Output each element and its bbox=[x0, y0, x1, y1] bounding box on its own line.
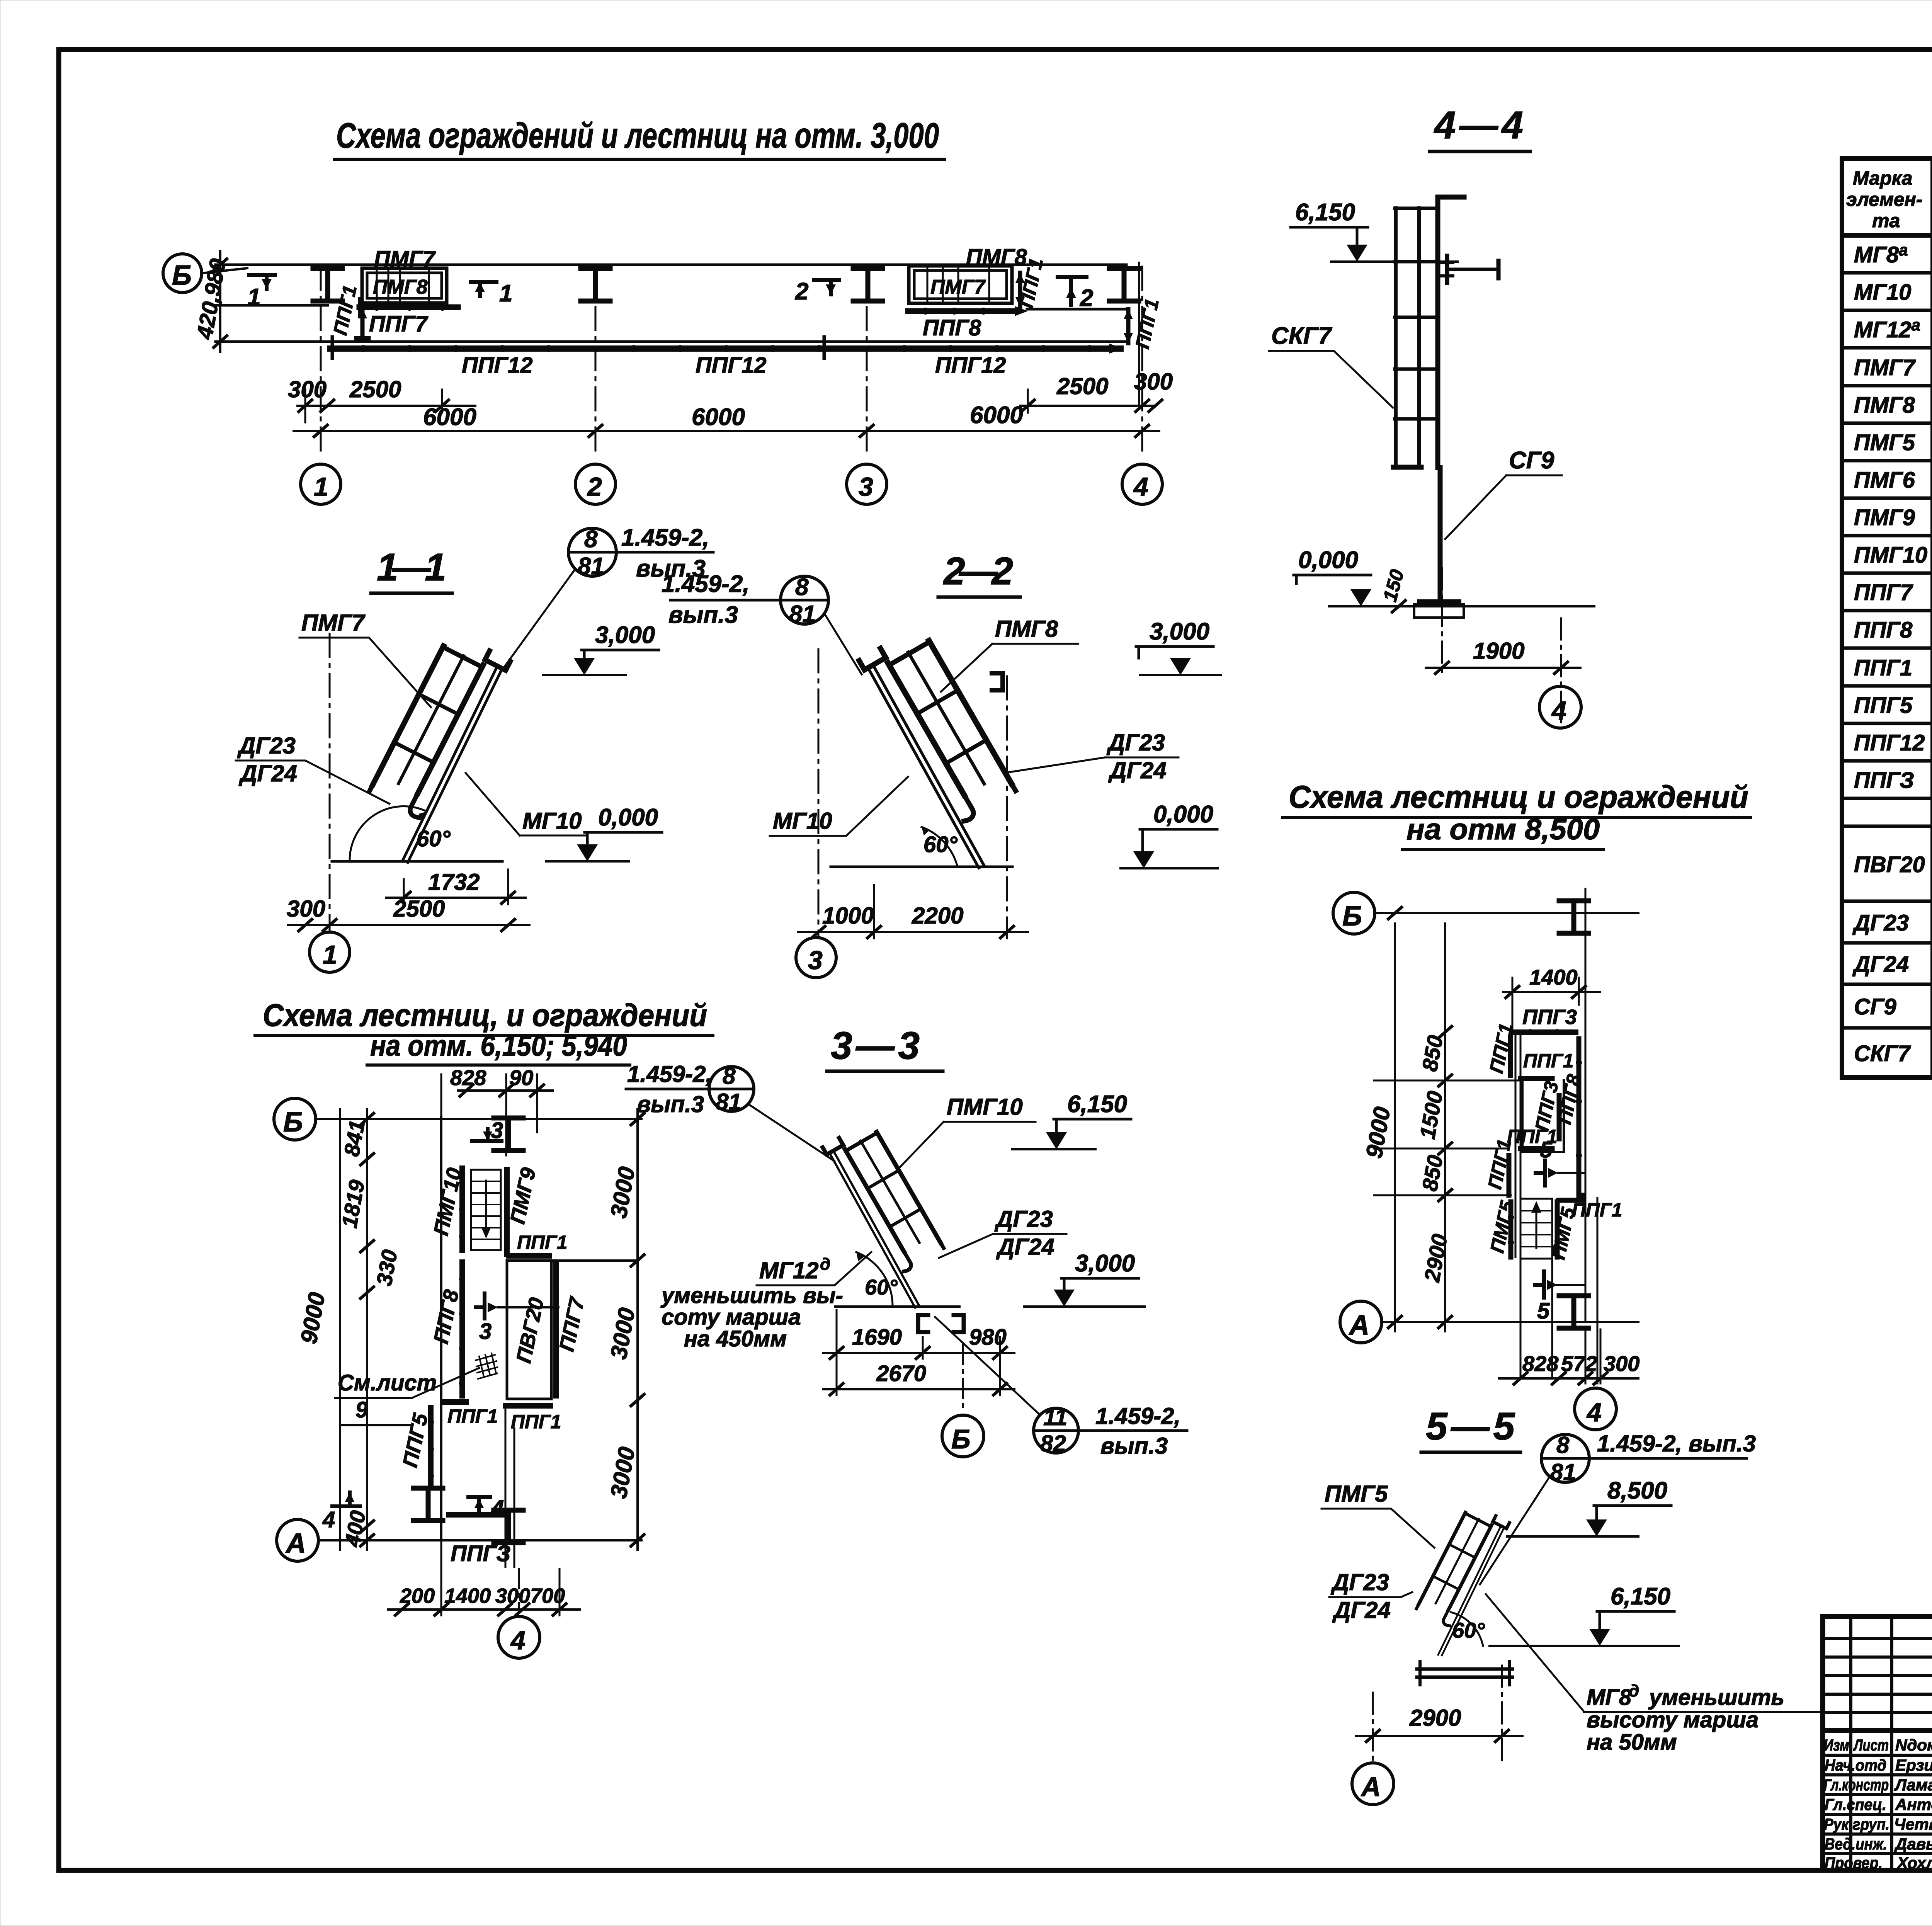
dim 300/2500 bbox=[288, 924, 529, 926]
axis circle 3 bbox=[818, 649, 820, 937]
svg-text:1400: 1400 bbox=[444, 1584, 491, 1608]
svg-text:Схема лестниц и ограждений: Схема лестниц и ограждений bbox=[1289, 779, 1748, 815]
svg-text:ДГ23: ДГ23 bbox=[1852, 910, 1909, 936]
svg-text:Nдокум.: Nдокум. bbox=[1895, 1736, 1932, 1754]
svg-text:та: та bbox=[1872, 210, 1900, 231]
svg-text:9000: 9000 bbox=[296, 1290, 330, 1346]
right dim chain 3000x3 bbox=[636, 1109, 639, 1550]
svg-text:60°: 60° bbox=[923, 832, 958, 857]
svg-text:МГ10: МГ10 bbox=[773, 808, 832, 834]
svg-text:5—5: 5—5 bbox=[1426, 1405, 1515, 1448]
svg-text:Хохлова: Хохлова bbox=[1896, 1854, 1932, 1872]
landing ПВГ20 bbox=[507, 1261, 551, 1399]
svg-text:на отм 8,500: на отм 8,500 bbox=[1406, 813, 1600, 846]
column I-beam top bbox=[494, 1118, 523, 1150]
svg-text:ППГ12: ППГ12 bbox=[1854, 730, 1925, 755]
svg-text:8: 8 bbox=[723, 1063, 736, 1089]
svg-text:4: 4 bbox=[1586, 1398, 1602, 1427]
svg-text:Б: Б bbox=[283, 1107, 303, 1138]
axis circle А bbox=[277, 1519, 318, 1561]
svg-text:200: 200 bbox=[400, 1584, 435, 1608]
dim chain 300/2500 left bbox=[298, 405, 475, 407]
svg-text:ПМГ10: ПМГ10 bbox=[1854, 543, 1927, 568]
column I-beam top bbox=[1559, 901, 1588, 933]
svg-text:3: 3 bbox=[808, 946, 823, 975]
railing ППГ1 lower-left bbox=[444, 1399, 466, 1405]
axis circle 1 bbox=[329, 634, 331, 931]
callout 8/81 bbox=[568, 528, 616, 576]
svg-text:ППГ5: ППГ5 bbox=[398, 1411, 432, 1469]
svg-text:1: 1 bbox=[499, 280, 512, 307]
svg-text:ПВГ20: ПВГ20 bbox=[512, 1296, 548, 1365]
railing ПМГ10 heavy bbox=[459, 1168, 465, 1250]
railing ППГ7 heavy bbox=[553, 1264, 559, 1396]
svg-text:81: 81 bbox=[789, 601, 816, 628]
svg-text:1500: 1500 bbox=[1415, 1089, 1447, 1141]
svg-text:1.459-2,: 1.459-2, bbox=[1095, 1403, 1180, 1429]
svg-text:Провер.: Провер. bbox=[1825, 1854, 1883, 1872]
railing ППГ5 heavy bbox=[428, 1408, 434, 1485]
svg-text:ПМГ8: ПМГ8 bbox=[995, 616, 1058, 642]
svg-text:ППГ1: ППГ1 bbox=[511, 1411, 561, 1433]
svg-text:ПВГ20: ПВГ20 bbox=[1854, 852, 1925, 877]
section mark 3 mid bbox=[476, 1293, 485, 1319]
svg-text:0,000: 0,000 bbox=[598, 804, 658, 831]
pole СГ9 bbox=[1438, 468, 1443, 601]
svg-text:1: 1 bbox=[323, 940, 337, 970]
railing ППГ7 heavy bbox=[359, 305, 458, 310]
axis circle А bbox=[1352, 1763, 1394, 1805]
svg-text:ПМГ9: ПМГ9 bbox=[1854, 505, 1915, 530]
svg-text:Вед.инж.: Вед.инж. bbox=[1825, 1835, 1887, 1853]
svg-text:ППГ7: ППГ7 bbox=[1854, 580, 1913, 605]
svg-text:1—1: 1—1 bbox=[377, 546, 446, 589]
svg-text:81: 81 bbox=[716, 1089, 742, 1115]
ППГ1 post left bbox=[356, 308, 369, 338]
svg-text:ДГ24: ДГ24 bbox=[238, 761, 297, 786]
svg-text:ПМГ6: ПМГ6 bbox=[1854, 468, 1915, 493]
callout 8/81 bbox=[1541, 1434, 1589, 1482]
svg-text:82: 82 bbox=[1040, 1431, 1066, 1456]
angle 60 bbox=[350, 806, 427, 861]
column I-beams bbox=[313, 269, 342, 301]
svg-text:0,000: 0,000 bbox=[1298, 547, 1358, 573]
svg-text:60°: 60° bbox=[865, 1275, 898, 1299]
axis circle Б bbox=[962, 1345, 964, 1412]
section mark 2 right bbox=[1058, 277, 1087, 305]
svg-text:1819: 1819 bbox=[337, 1178, 369, 1230]
svg-text:уменьшить: уменьшить bbox=[1648, 1685, 1784, 1710]
svg-text:ДГ23: ДГ23 bbox=[1330, 1569, 1389, 1595]
dim 1900 bbox=[1442, 568, 1561, 727]
table grid bbox=[1842, 158, 1932, 1077]
svg-text:ПМГ5: ПМГ5 bbox=[1325, 1481, 1388, 1507]
axis circle Б bbox=[274, 1098, 316, 1140]
svg-text:6,150: 6,150 bbox=[1295, 199, 1355, 226]
svg-text:60°: 60° bbox=[417, 826, 451, 851]
svg-text:3000: 3000 bbox=[605, 1445, 640, 1500]
svg-text:1000: 1000 bbox=[822, 903, 874, 929]
right bay ledge line bbox=[1027, 308, 1126, 311]
section mark 3 top bbox=[472, 1129, 502, 1141]
svg-text:ПМГ8: ПМГ8 bbox=[966, 245, 1027, 270]
svg-text:5: 5 bbox=[1537, 1298, 1550, 1324]
svg-text:2500: 2500 bbox=[393, 896, 445, 922]
svg-text:ППГ8: ППГ8 bbox=[429, 1288, 463, 1346]
wall bottom line bbox=[216, 340, 1126, 343]
svg-text:на 50мм: на 50мм bbox=[1587, 1730, 1677, 1755]
svg-text:1690: 1690 bbox=[852, 1325, 902, 1350]
svg-text:ПМГ8: ПМГ8 bbox=[1854, 393, 1915, 418]
svg-text:ПМГ7: ПМГ7 bbox=[374, 247, 436, 272]
landing box bbox=[1522, 1079, 1564, 1152]
svg-text:980: 980 bbox=[969, 1325, 1007, 1350]
svg-text:Рук.груп.: Рук.груп. bbox=[1824, 1815, 1889, 1833]
svg-text:1.459-2,: 1.459-2, bbox=[621, 524, 709, 551]
svg-text:6,150: 6,150 bbox=[1611, 1583, 1670, 1610]
svg-text:3—3: 3—3 bbox=[831, 1024, 920, 1067]
right boundary line bbox=[1585, 889, 1587, 1322]
svg-text:А: А bbox=[285, 1528, 306, 1559]
ladder cage СКГ7 bbox=[1396, 208, 1419, 467]
svg-text:1: 1 bbox=[247, 284, 260, 311]
svg-text:Изм: Изм bbox=[1824, 1736, 1849, 1754]
callout 8/81 bbox=[709, 1067, 754, 1111]
svg-text:2200: 2200 bbox=[912, 903, 963, 929]
svg-text:3: 3 bbox=[479, 1319, 492, 1344]
section mark 5 lower bbox=[1535, 1271, 1544, 1298]
svg-text:3: 3 bbox=[491, 1118, 503, 1143]
svg-text:СГ9: СГ9 bbox=[1854, 994, 1896, 1019]
svg-text:9000: 9000 bbox=[1361, 1105, 1395, 1160]
svg-text:0,000: 0,000 bbox=[1153, 801, 1213, 828]
svg-text:ДГ24: ДГ24 bbox=[1332, 1597, 1391, 1623]
svg-text:2: 2 bbox=[795, 278, 808, 305]
svg-text:МГ10: МГ10 bbox=[1854, 280, 1911, 305]
svg-text:ППГЗ: ППГЗ bbox=[451, 1541, 511, 1566]
svg-text:ПМГ8: ПМГ8 bbox=[373, 276, 428, 298]
ground line bbox=[835, 1305, 959, 1308]
svg-text:Ерзин: Ерзин bbox=[1895, 1756, 1932, 1774]
svg-text:ПМГ7: ПМГ7 bbox=[301, 610, 366, 636]
walkway railing ППГ12 heavy dashed bbox=[330, 345, 1121, 352]
svg-text:Б: Б bbox=[172, 260, 192, 291]
svg-text:элемен-: элемен- bbox=[1846, 189, 1923, 210]
dim 1690/980 bbox=[823, 1352, 1014, 1354]
svg-text:6000: 6000 bbox=[692, 404, 745, 430]
railing ППГ1 lower-right bbox=[505, 1403, 550, 1409]
section mark 5 upper bbox=[1536, 1160, 1545, 1186]
svg-text:Гл.спец.: Гл.спец. bbox=[1825, 1795, 1886, 1814]
svg-text:ППГ1: ППГ1 bbox=[1523, 1050, 1573, 1072]
svg-text:2670: 2670 bbox=[876, 1361, 926, 1386]
wall top line bbox=[216, 264, 1126, 266]
ground line bbox=[332, 860, 502, 863]
svg-text:ППГ1: ППГ1 bbox=[329, 283, 361, 337]
svg-text:См.лист: См.лист bbox=[338, 1370, 437, 1395]
svg-text:ПМГ5: ПМГ5 bbox=[1486, 1198, 1518, 1255]
svg-text:8,500: 8,500 bbox=[1607, 1477, 1667, 1504]
svg-text:на отм. 6,150; 5,940: на отм. 6,150; 5,940 bbox=[370, 1029, 627, 1062]
svg-text:ППГ1: ППГ1 bbox=[1854, 655, 1912, 681]
svg-text:Лист: Лист bbox=[1853, 1736, 1889, 1754]
svg-text:841: 841 bbox=[339, 1118, 369, 1158]
svg-text:ППГЗ: ППГЗ bbox=[1854, 768, 1914, 793]
ladder МГ10 with railing ПМГ7 bbox=[348, 631, 510, 864]
dim chain 2500/300 right bbox=[1020, 405, 1155, 407]
svg-text:9: 9 bbox=[355, 1397, 368, 1422]
svg-text:6,150: 6,150 bbox=[1067, 1091, 1127, 1118]
svg-text:ППГ12: ППГ12 bbox=[462, 353, 533, 378]
grid circle 4 bbox=[518, 1569, 520, 1611]
svg-text:4—4: 4—4 bbox=[1434, 104, 1523, 147]
ladder МГ10 with railing ПМГ8 bbox=[859, 625, 1041, 869]
outer dim 9000 bbox=[1394, 924, 1396, 1331]
left dim chain 841/1819/330/400 bbox=[366, 1109, 368, 1550]
section mark 4 bottom bbox=[468, 1497, 490, 1513]
stair flight up bbox=[471, 1170, 501, 1250]
svg-text:на 450мм: на 450мм bbox=[684, 1326, 787, 1351]
svg-text:2: 2 bbox=[1080, 285, 1093, 311]
svg-text:2500: 2500 bbox=[1056, 373, 1108, 399]
svg-text:2900: 2900 bbox=[1420, 1232, 1452, 1284]
ground line bbox=[831, 866, 1012, 868]
svg-text:81: 81 bbox=[1550, 1459, 1576, 1485]
svg-text:ППГ7: ППГ7 bbox=[555, 1294, 589, 1353]
svg-text:ДГ23: ДГ23 bbox=[1106, 730, 1165, 755]
svg-text:1.459-2,: 1.459-2, bbox=[627, 1061, 712, 1087]
svg-text:3,000: 3,000 bbox=[595, 622, 655, 648]
svg-text:4: 4 bbox=[510, 1626, 526, 1655]
svg-text:1732: 1732 bbox=[428, 869, 480, 895]
svg-text:4: 4 bbox=[1133, 472, 1148, 502]
svg-text:ППГ1: ППГ1 bbox=[517, 1232, 567, 1253]
svg-text:828: 828 bbox=[450, 1065, 486, 1090]
svg-text:ДГ24: ДГ24 bbox=[1852, 952, 1909, 977]
column I-beam bottom bbox=[1559, 1296, 1588, 1328]
svg-text:Четверикова: Четверикова bbox=[1894, 1815, 1932, 1833]
svg-text:2500: 2500 bbox=[349, 376, 401, 402]
svg-text:ДГ24: ДГ24 bbox=[996, 1234, 1054, 1260]
vertical dim 420,980 bbox=[219, 251, 221, 352]
svg-text:6000: 6000 bbox=[423, 404, 476, 430]
ladder МГ8 with railing ПМГ5 bbox=[1402, 1503, 1509, 1656]
column I-beam left bottom bbox=[413, 1488, 443, 1521]
svg-text:1: 1 bbox=[314, 472, 328, 502]
svg-text:ППГ8: ППГ8 bbox=[1854, 618, 1913, 643]
railing box ПМГ7 right bbox=[909, 266, 1012, 303]
svg-text:8: 8 bbox=[1556, 1432, 1570, 1458]
svg-text:1.459-2, вып.3: 1.459-2, вып.3 bbox=[1597, 1431, 1756, 1456]
svg-text:МГ8а: МГ8а bbox=[1854, 241, 1908, 267]
mid floor line bbox=[507, 1259, 638, 1262]
left wall line bbox=[440, 1117, 442, 1540]
svg-text:2: 2 bbox=[587, 472, 602, 502]
svg-text:ПМГ10: ПМГ10 bbox=[947, 1094, 1023, 1120]
angle 60 bbox=[922, 827, 957, 867]
svg-text:А: А bbox=[1361, 1772, 1381, 1802]
support beam bbox=[1417, 1667, 1512, 1671]
axis verticals dash-dot bbox=[320, 267, 322, 456]
angle 60 bbox=[1451, 1612, 1483, 1646]
svg-text:Б: Б bbox=[1342, 901, 1362, 932]
svg-text:Схема ограждений и лестниц н: Схема ограждений и лестниц на отм. 3,000 bbox=[336, 116, 939, 155]
svg-text:11: 11 bbox=[1043, 1404, 1067, 1430]
svg-text:Нач.отд: Нач.отд bbox=[1825, 1756, 1886, 1774]
svg-text:330: 330 bbox=[372, 1248, 402, 1288]
svg-text:ДГ24: ДГ24 bbox=[1108, 757, 1167, 783]
hatch patch bbox=[476, 1353, 497, 1379]
svg-text:300: 300 bbox=[1604, 1351, 1639, 1376]
title block grid bbox=[1823, 1616, 1932, 1870]
svg-text:3,000: 3,000 bbox=[1150, 618, 1209, 645]
grid circle 4 bbox=[1122, 464, 1162, 504]
svg-text:МГ12: МГ12 bbox=[759, 1257, 819, 1283]
grid circle 2 bbox=[575, 464, 616, 504]
base plate bbox=[1419, 599, 1459, 603]
axis circle Б bbox=[1333, 892, 1375, 934]
svg-text:420,980: 420,980 bbox=[192, 257, 231, 341]
corridor lines bbox=[505, 1406, 514, 1567]
svg-text:300: 300 bbox=[288, 376, 327, 402]
axis circle Б bbox=[163, 254, 202, 293]
svg-text:Ламакин: Ламакин bbox=[1894, 1776, 1932, 1794]
svg-text:МГ8: МГ8 bbox=[1587, 1685, 1632, 1710]
svg-text:2—2: 2—2 bbox=[943, 550, 1013, 593]
callout 8/81 bbox=[781, 576, 828, 624]
svg-text:вып.3: вып.3 bbox=[1100, 1433, 1168, 1459]
svg-text:150: 150 bbox=[1379, 567, 1408, 604]
axis circle А bbox=[1340, 1301, 1382, 1343]
grid circle 4 bbox=[1575, 1388, 1616, 1430]
svg-text:Схема лестниц, и ограждений: Схема лестниц, и ограждений bbox=[263, 998, 707, 1033]
railing box ПМГ8 left bbox=[362, 268, 447, 303]
railing ППГ8 heavy bbox=[459, 1262, 465, 1396]
svg-text:ПМГ7: ПМГ7 bbox=[1854, 355, 1916, 380]
svg-text:ППГ1: ППГ1 bbox=[447, 1405, 498, 1427]
svg-text:850: 850 bbox=[1417, 1033, 1447, 1073]
railing ППГ1 bbox=[509, 1253, 549, 1259]
svg-text:СКГ7: СКГ7 bbox=[1854, 1041, 1911, 1066]
dims 1000/2200 bbox=[798, 931, 1028, 933]
ППГ1 post far right bbox=[1126, 309, 1131, 343]
svg-text:ППГ3: ППГ3 bbox=[1522, 1006, 1577, 1029]
svg-text:81: 81 bbox=[578, 553, 604, 580]
svg-text:8: 8 bbox=[584, 526, 598, 553]
svg-text:3000: 3000 bbox=[605, 1165, 640, 1220]
svg-text:6000: 6000 bbox=[970, 402, 1023, 429]
svg-text:4: 4 bbox=[322, 1507, 335, 1532]
svg-text:ДГ23: ДГ23 bbox=[237, 733, 296, 759]
main dim line 6000 bbox=[294, 430, 1159, 432]
svg-text:Марка: Марка bbox=[1853, 167, 1912, 189]
svg-text:3000: 3000 bbox=[605, 1306, 640, 1361]
left dim chain 850/1500/850/2900 bbox=[1444, 924, 1446, 1331]
railing ПМГ9 heavy bbox=[504, 1170, 510, 1254]
svg-text:3: 3 bbox=[859, 472, 873, 502]
svg-text:4: 4 bbox=[1551, 696, 1566, 725]
svg-text:1400: 1400 bbox=[1529, 965, 1578, 989]
svg-text:ПМГ7: ПМГ7 bbox=[930, 276, 986, 298]
left bay ledge line bbox=[216, 304, 328, 307]
svg-text:300: 300 bbox=[1134, 369, 1173, 395]
svg-text:1900: 1900 bbox=[1473, 638, 1524, 664]
beam I right bbox=[1447, 268, 1498, 271]
svg-text:ППГ7: ППГ7 bbox=[369, 311, 429, 337]
grid circle 3 bbox=[847, 464, 887, 504]
svg-text:Б: Б bbox=[951, 1424, 971, 1454]
ППГ1 post right-mid bbox=[1018, 273, 1022, 307]
svg-text:ПМГ5: ПМГ5 bbox=[1854, 430, 1915, 455]
grid circle 1 bbox=[301, 464, 341, 504]
svg-text:1.459-2,: 1.459-2, bbox=[662, 571, 750, 597]
callout 11/82 bbox=[1034, 1408, 1078, 1453]
section mark 1 right bbox=[471, 282, 497, 296]
svg-text:8: 8 bbox=[795, 574, 809, 601]
svg-text:ДГ23: ДГ23 bbox=[994, 1206, 1053, 1232]
dim 2670 bbox=[823, 1388, 1014, 1390]
svg-text:МГ10: МГ10 bbox=[522, 808, 582, 834]
svg-text:вып.3: вып.3 bbox=[668, 602, 738, 628]
ladder МГ12 with railing ПМГ10 bbox=[823, 1120, 963, 1309]
svg-text:ППГ5: ППГ5 bbox=[1854, 693, 1913, 718]
svg-text:А: А bbox=[1349, 1310, 1369, 1341]
svg-text:д: д bbox=[1629, 1681, 1639, 1700]
svg-text:ППГ1: ППГ1 bbox=[1131, 297, 1163, 350]
channel columns bbox=[918, 1315, 928, 1332]
svg-text:ППГ8: ППГ8 bbox=[923, 315, 981, 340]
svg-text:вып.3: вып.3 bbox=[637, 1091, 704, 1117]
svg-text:Гл.констр: Гл.констр bbox=[1824, 1776, 1889, 1794]
svg-text:МГ12а: МГ12а bbox=[1854, 316, 1920, 342]
stair flight bbox=[1520, 1199, 1552, 1259]
column I-beam bottom bbox=[494, 1510, 523, 1543]
svg-text:Антонов: Антонов bbox=[1895, 1795, 1932, 1814]
svg-text:3,000: 3,000 bbox=[1075, 1250, 1135, 1277]
section mark 4 left bbox=[332, 1492, 360, 1506]
svg-text:ППГ12: ППГ12 bbox=[935, 353, 1006, 378]
svg-text:СКГ7: СКГ7 bbox=[1271, 323, 1332, 349]
svg-text:300: 300 bbox=[287, 896, 325, 922]
corridor verticals bbox=[1520, 1032, 1552, 1378]
svg-text:2900: 2900 bbox=[1409, 1705, 1461, 1731]
svg-text:850: 850 bbox=[1417, 1153, 1447, 1193]
svg-text:ППГ12: ППГ12 bbox=[696, 353, 767, 378]
svg-text:ПМГ9: ПМГ9 bbox=[506, 1165, 540, 1226]
ground line bbox=[1329, 605, 1594, 607]
svg-text:СГ9: СГ9 bbox=[1509, 447, 1554, 474]
angle 60 bbox=[856, 1252, 893, 1307]
railing ППГ8 heavy bbox=[908, 308, 1016, 314]
section mark 1 left bbox=[249, 275, 275, 289]
outer dim 9000 bbox=[339, 1109, 341, 1550]
svg-text:5: 5 bbox=[1540, 1137, 1553, 1162]
svg-text:Давыдова: Давыдова bbox=[1894, 1835, 1932, 1853]
section mark 2 left bbox=[814, 280, 839, 294]
svg-text:д: д bbox=[820, 1255, 830, 1274]
grid circle 4 bbox=[1539, 686, 1581, 728]
svg-text:60°: 60° bbox=[1452, 1618, 1485, 1642]
dim 1732 bbox=[404, 869, 508, 904]
wall lines bbox=[1374, 1032, 1522, 1257]
